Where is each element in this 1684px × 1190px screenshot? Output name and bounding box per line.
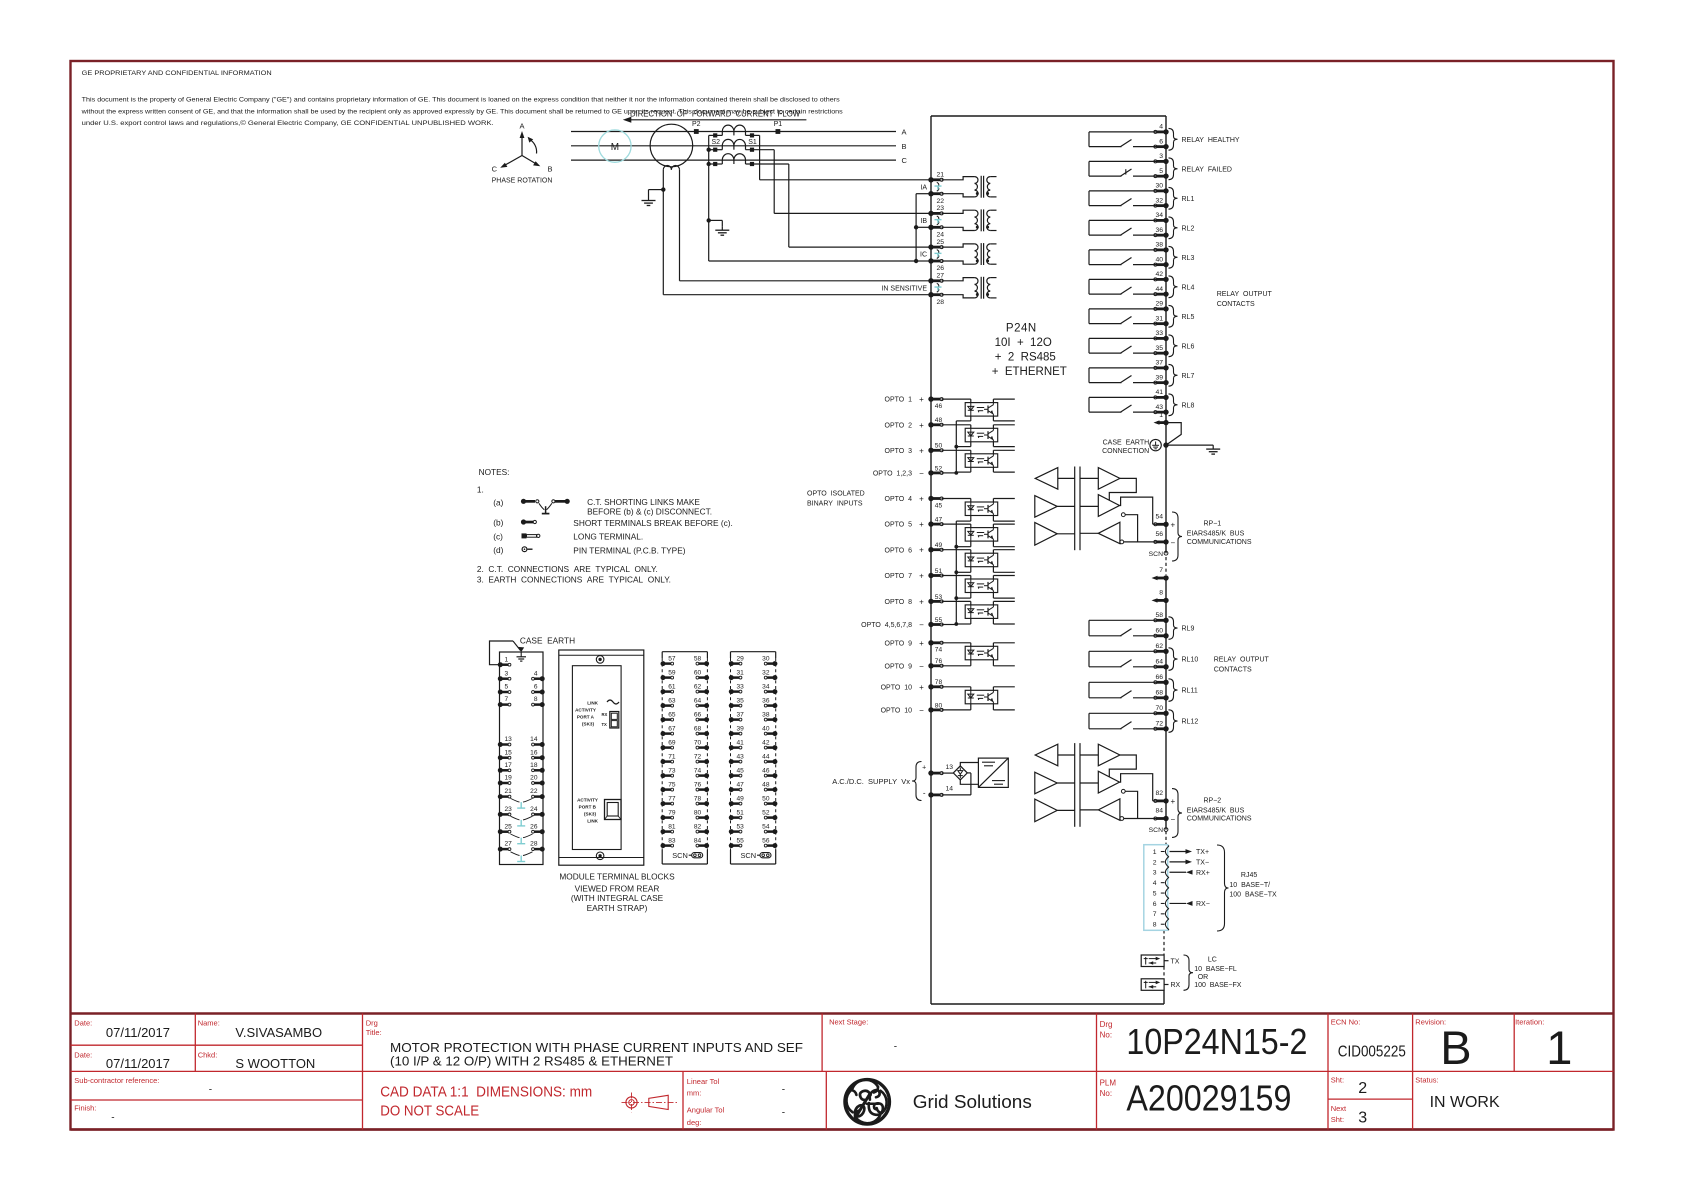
svg-text:36: 36 bbox=[762, 697, 770, 704]
svg-text:BEFORE (b) & (c) DISCONNECT.: BEFORE (b) & (c) DISCONNECT. bbox=[587, 506, 712, 516]
wire core CT lead right to terminal 27 bbox=[680, 170, 932, 281]
label RELAY FAILED bbox=[1182, 166, 1232, 173]
relay contact RL10 terminals 62/64 bbox=[1089, 651, 1166, 667]
svg-text:Sht:: Sht: bbox=[1331, 1076, 1344, 1085]
svg-text:32: 32 bbox=[1155, 197, 1163, 204]
svg-text:8: 8 bbox=[1159, 590, 1163, 597]
terminal 48 OPTO 2 + bbox=[885, 417, 944, 430]
title block drg no cell bbox=[1100, 1020, 1308, 1062]
terminal 43 bbox=[1154, 404, 1169, 415]
brace RL1 bbox=[1169, 187, 1178, 209]
terminal 5 bbox=[1154, 168, 1169, 179]
terminal 76 OPTO 9 - bbox=[885, 658, 944, 671]
svg-text:A: A bbox=[902, 128, 907, 137]
svg-text:80: 80 bbox=[935, 702, 943, 709]
relay contact RL11 terminals 66/68 bbox=[1089, 682, 1166, 698]
svg-text:-: - bbox=[782, 1084, 785, 1095]
terminal block 3 terminals bbox=[661, 655, 710, 848]
brace RL2 bbox=[1169, 217, 1178, 239]
svg-text:60: 60 bbox=[1155, 627, 1163, 634]
terminal 82 bbox=[1154, 790, 1176, 806]
marker P2 bbox=[692, 121, 701, 134]
svg-text:60: 60 bbox=[694, 669, 702, 676]
wire phase B S1 to terminal 23 bbox=[774, 150, 931, 214]
svg-text:28: 28 bbox=[530, 841, 538, 848]
svg-text:33: 33 bbox=[1155, 330, 1163, 337]
label RL6 bbox=[1182, 343, 1195, 350]
title block date cell bbox=[74, 1019, 170, 1072]
title block revision cell bbox=[1415, 1017, 1471, 1073]
terminal 26 bbox=[928, 258, 944, 272]
svg-text:V.SIVASAMBO: V.SIVASAMBO bbox=[235, 1025, 322, 1040]
svg-text:RL9: RL9 bbox=[1182, 626, 1195, 633]
svg-text:23: 23 bbox=[505, 806, 513, 813]
svg-text:100 BASE−FX: 100 BASE−FX bbox=[1194, 982, 1242, 989]
terminal 66 bbox=[1154, 674, 1169, 685]
svg-text:C: C bbox=[902, 156, 908, 165]
svg-text:24: 24 bbox=[937, 232, 945, 239]
RS485 interface RP-1 bbox=[1035, 467, 1166, 551]
notes heading bbox=[479, 467, 510, 477]
svg-text:20: 20 bbox=[530, 775, 538, 782]
svg-text:IB: IB bbox=[920, 218, 927, 225]
svg-text:31: 31 bbox=[1155, 315, 1163, 322]
module centre block outline bbox=[559, 650, 644, 865]
svg-text:+: + bbox=[919, 639, 924, 648]
svg-text:RL5: RL5 bbox=[1182, 314, 1195, 321]
opto group 1-3 channels bbox=[942, 399, 1015, 472]
svg-text:Finish:: Finish: bbox=[74, 1104, 96, 1113]
terminal 13 bbox=[928, 764, 953, 776]
CT phase A bbox=[709, 125, 760, 146]
svg-text:TX: TX bbox=[1171, 958, 1180, 965]
svg-text:OPTO 3: OPTO 3 bbox=[885, 448, 913, 455]
svg-text:+: + bbox=[1171, 520, 1176, 529]
svg-text:84: 84 bbox=[694, 837, 702, 844]
first angle projection symbol bbox=[622, 1093, 679, 1113]
terminal 50 OPTO 3 + bbox=[885, 443, 944, 456]
svg-text:BINARY INPUTS: BINARY INPUTS bbox=[807, 500, 863, 507]
brace RL4 bbox=[1169, 276, 1178, 298]
brace RL7 bbox=[1169, 364, 1178, 386]
disclaimer paragraph bbox=[81, 96, 843, 127]
input transformer IC bbox=[942, 243, 997, 265]
brace RL12 bbox=[1169, 710, 1178, 733]
svg-text:64: 64 bbox=[694, 697, 702, 704]
svg-text:23: 23 bbox=[937, 205, 945, 212]
terminal 24 bbox=[928, 225, 944, 239]
DC/DC converter bbox=[978, 758, 1008, 787]
label P24N 10I+12O+2RS485+ETHERNET bbox=[992, 323, 1067, 379]
svg-text:RL2: RL2 bbox=[1182, 225, 1195, 232]
svg-text:(SK3): (SK3) bbox=[582, 722, 594, 727]
svg-text:15: 15 bbox=[505, 749, 513, 756]
svg-text:CONTACTS: CONTACTS bbox=[1214, 667, 1252, 674]
svg-text:1.: 1. bbox=[477, 485, 484, 495]
GE proprietary header text bbox=[82, 70, 272, 77]
svg-text:OPTO 9: OPTO 9 bbox=[885, 640, 913, 647]
terminal 78 OPTO 10 + bbox=[881, 679, 943, 692]
svg-text:OPTO 1: OPTO 1 bbox=[885, 397, 913, 404]
svg-text:49: 49 bbox=[935, 542, 943, 549]
bridge rectifier bbox=[953, 766, 967, 780]
label RL8 bbox=[1182, 402, 1195, 409]
opto 9 channel bbox=[942, 643, 1015, 666]
svg-text:61: 61 bbox=[668, 683, 676, 690]
svg-text:07/11/2017: 07/11/2017 bbox=[106, 1056, 170, 1071]
brace RL11 bbox=[1169, 679, 1178, 702]
label RL10 bbox=[1182, 657, 1199, 664]
svg-text:CASE EARTH: CASE EARTH bbox=[1103, 440, 1150, 447]
LC TX port bbox=[1141, 955, 1180, 967]
terminal 21 bbox=[928, 172, 944, 183]
label IA bbox=[920, 184, 927, 191]
svg-text:mm:: mm: bbox=[687, 1088, 702, 1097]
svg-text:RX+: RX+ bbox=[1196, 870, 1210, 877]
svg-text:RP−2: RP−2 bbox=[1204, 797, 1222, 804]
svg-text:4: 4 bbox=[1153, 880, 1157, 887]
note (b) symbol and text bbox=[493, 518, 733, 528]
svg-text:81: 81 bbox=[668, 823, 676, 830]
terminal SCN RP-1 bbox=[1149, 551, 1168, 558]
svg-text:52: 52 bbox=[762, 809, 770, 816]
svg-text:Next Stage:: Next Stage: bbox=[829, 1018, 868, 1027]
svg-text:(d): (d) bbox=[493, 545, 503, 555]
svg-text:(10 I/P & 12 O/P) WITH 2 RS485: (10 I/P & 12 O/P) WITH 2 RS485 & ETHERNE… bbox=[390, 1053, 673, 1068]
svg-text:OPTO 6: OPTO 6 bbox=[885, 547, 913, 554]
svg-text:TX−: TX− bbox=[1196, 859, 1209, 866]
svg-text:49: 49 bbox=[737, 795, 745, 802]
svg-text:58: 58 bbox=[1155, 612, 1163, 619]
svg-text:40: 40 bbox=[762, 725, 770, 732]
phase line B bbox=[571, 142, 907, 151]
svg-text:27: 27 bbox=[937, 273, 945, 280]
terminal 4 bbox=[1154, 124, 1169, 135]
label RL5 bbox=[1182, 314, 1195, 321]
svg-text:33: 33 bbox=[737, 683, 745, 690]
svg-text:+: + bbox=[919, 546, 924, 555]
svg-text:A20029159: A20029159 bbox=[1126, 1078, 1291, 1119]
label RP-1 EIARS485/K BUS COMMUNICATIONS bbox=[1187, 521, 1252, 546]
svg-text:68: 68 bbox=[694, 725, 702, 732]
svg-text:74: 74 bbox=[935, 647, 943, 654]
svg-text:5: 5 bbox=[1153, 890, 1157, 897]
terminal 60 bbox=[1154, 627, 1169, 638]
svg-text:25: 25 bbox=[505, 823, 513, 830]
svg-text:RL3: RL3 bbox=[1182, 255, 1195, 262]
svg-text:36: 36 bbox=[1155, 227, 1163, 234]
relay contact RL12 terminals 70/72 bbox=[1089, 713, 1166, 729]
svg-text:78: 78 bbox=[935, 679, 943, 686]
label RL2 bbox=[1182, 225, 1195, 232]
svg-text:−: − bbox=[919, 706, 924, 715]
svg-text:21: 21 bbox=[505, 788, 513, 795]
svg-text:30: 30 bbox=[762, 655, 770, 662]
svg-text:44: 44 bbox=[1155, 286, 1163, 293]
svg-text:+: + bbox=[919, 446, 924, 455]
svg-text:(c): (c) bbox=[493, 531, 503, 541]
label case earth connection bbox=[1102, 440, 1149, 455]
svg-text:−: − bbox=[919, 621, 924, 630]
svg-text:82: 82 bbox=[694, 823, 702, 830]
svg-text:50: 50 bbox=[935, 443, 943, 450]
svg-text:39: 39 bbox=[737, 725, 745, 732]
svg-text:17: 17 bbox=[505, 762, 513, 769]
svg-text:SCN: SCN bbox=[1149, 827, 1163, 834]
svg-text:56: 56 bbox=[762, 837, 770, 844]
svg-text:38: 38 bbox=[762, 711, 770, 718]
svg-text:LINK: LINK bbox=[587, 819, 598, 824]
title block next stage cell bbox=[829, 1018, 897, 1053]
svg-text:1: 1 bbox=[1153, 849, 1157, 856]
terminal 68 bbox=[1154, 689, 1169, 700]
note (c) symbol and text bbox=[493, 531, 643, 541]
input transformer IB bbox=[942, 209, 997, 231]
svg-text:OR: OR bbox=[1198, 974, 1209, 981]
AC/DC supply terminals 13 14 bbox=[832, 762, 926, 801]
wires supply to converter bbox=[942, 763, 979, 795]
svg-text:42: 42 bbox=[1155, 271, 1163, 278]
terminal block 4 outline bbox=[731, 652, 776, 864]
terminal 14 bbox=[928, 786, 953, 798]
label RP-2 EIARS485/K BUS COMMUNICATIONS bbox=[1187, 797, 1252, 822]
svg-text:47: 47 bbox=[737, 781, 745, 788]
label RL9 bbox=[1182, 626, 1195, 633]
title block linear tol cell bbox=[687, 1077, 785, 1127]
svg-text:70: 70 bbox=[694, 739, 702, 746]
svg-text:EARTH STRAP): EARTH STRAP) bbox=[587, 903, 648, 913]
svg-text:RX−: RX− bbox=[1196, 901, 1210, 908]
note 2 bbox=[477, 564, 658, 574]
svg-text:Sht:: Sht: bbox=[1331, 1115, 1344, 1124]
LC RX port bbox=[1141, 979, 1180, 991]
svg-text:Sub-contractor reference:: Sub-contractor reference: bbox=[74, 1076, 159, 1085]
svg-text:SHORT TERMINALS BREAK BEFORE (: SHORT TERMINALS BREAK BEFORE (c). bbox=[573, 518, 733, 528]
title block name cell bbox=[198, 1019, 322, 1072]
title block cad data cell bbox=[380, 1083, 592, 1119]
svg-text:Name:: Name: bbox=[198, 1019, 220, 1028]
svg-text:Next: Next bbox=[1331, 1104, 1347, 1113]
svg-text:59: 59 bbox=[668, 669, 676, 676]
svg-text:COMMUNICATIONS: COMMUNICATIONS bbox=[1187, 539, 1252, 546]
svg-text:32: 32 bbox=[762, 669, 770, 676]
svg-text:OPTO 1,2,3: OPTO 1,2,3 bbox=[873, 471, 912, 478]
terminal block 4 SCN bbox=[741, 851, 772, 860]
svg-text:+: + bbox=[1171, 797, 1176, 806]
svg-text:under U.S. export control laws: under U.S. export control laws and regul… bbox=[82, 119, 494, 127]
svg-text:GE PROPRIETARY AND CONFIDENTIA: GE PROPRIETARY AND CONFIDENTIAL INFORMAT… bbox=[82, 70, 272, 77]
GE logo bbox=[845, 1080, 890, 1125]
svg-text:30: 30 bbox=[1155, 183, 1163, 190]
terminal 33 bbox=[1154, 330, 1169, 341]
svg-text:57: 57 bbox=[668, 655, 676, 662]
svg-text:13: 13 bbox=[505, 736, 513, 743]
brace RP-2 bbox=[1172, 789, 1182, 838]
svg-text:50: 50 bbox=[762, 795, 770, 802]
relay contact RL5 terminals 29/31 bbox=[1089, 309, 1166, 324]
label RL3 bbox=[1182, 255, 1195, 262]
RS485 interface RP-2 bbox=[1035, 743, 1166, 827]
label RL11 bbox=[1182, 688, 1198, 695]
terminal 8 bbox=[1152, 590, 1169, 604]
svg-text:(SK3): (SK3) bbox=[584, 812, 596, 817]
svg-text:22: 22 bbox=[530, 788, 538, 795]
svg-text:+: + bbox=[919, 421, 924, 430]
phase line C bbox=[571, 156, 908, 165]
terminal 34 bbox=[1154, 212, 1169, 223]
terminal 27 bbox=[928, 273, 944, 284]
svg-text:RL8: RL8 bbox=[1182, 402, 1195, 409]
terminal 44 bbox=[1154, 286, 1169, 297]
svg-text:OPTO 8: OPTO 8 bbox=[885, 599, 913, 606]
svg-text:OPTO 7: OPTO 7 bbox=[885, 573, 913, 580]
svg-text:IN SENSITIVE: IN SENSITIVE bbox=[881, 285, 927, 292]
CT shorting link 21/22 bbox=[935, 182, 942, 191]
svg-text:OPTO 5: OPTO 5 bbox=[885, 522, 913, 529]
svg-text:ACTIVITY: ACTIVITY bbox=[577, 798, 598, 803]
svg-text:Title:: Title: bbox=[366, 1028, 382, 1037]
case earth label and strap bbox=[490, 635, 576, 664]
phase line A bbox=[571, 128, 907, 137]
svg-text:52: 52 bbox=[935, 465, 943, 472]
svg-text:43: 43 bbox=[737, 753, 745, 760]
svg-text:29: 29 bbox=[1155, 301, 1163, 308]
svg-text:(a): (a) bbox=[493, 497, 503, 507]
svg-text:RELAY HEALTHY: RELAY HEALTHY bbox=[1182, 137, 1240, 144]
svg-text:+ ETHERNET: + ETHERNET bbox=[992, 366, 1067, 378]
svg-text:-: - bbox=[209, 1085, 212, 1096]
svg-text:RL7: RL7 bbox=[1182, 373, 1195, 380]
svg-text:25: 25 bbox=[937, 239, 945, 246]
svg-text:75: 75 bbox=[668, 781, 676, 788]
marker P1 bbox=[774, 121, 783, 134]
title block sub-contractor cell bbox=[74, 1076, 212, 1124]
terminal 40 bbox=[1154, 256, 1169, 267]
svg-text:69: 69 bbox=[668, 739, 676, 746]
svg-text:+: + bbox=[919, 597, 924, 606]
svg-text:46: 46 bbox=[935, 403, 943, 410]
svg-text:27: 27 bbox=[505, 841, 513, 848]
svg-text:83: 83 bbox=[668, 837, 676, 844]
svg-text:72: 72 bbox=[694, 753, 702, 760]
svg-text:63: 63 bbox=[668, 697, 676, 704]
module screw top bbox=[596, 656, 604, 664]
svg-text:7: 7 bbox=[1159, 567, 1163, 574]
svg-text:RL1: RL1 bbox=[1182, 196, 1195, 203]
relay contact RELAY HEALTHY terminals 4/6 bbox=[1089, 132, 1166, 147]
earth connection at core CT bbox=[642, 187, 666, 205]
svg-text:77: 77 bbox=[668, 795, 676, 802]
svg-text:RL10: RL10 bbox=[1182, 657, 1199, 664]
note 1 bbox=[477, 485, 484, 495]
terminal 28 bbox=[928, 292, 944, 306]
brace LC bbox=[1184, 955, 1194, 990]
svg-text:PORT A: PORT A bbox=[577, 715, 595, 720]
terminal block 3 outline bbox=[662, 652, 707, 864]
svg-text:RELAY OUTPUT: RELAY OUTPUT bbox=[1217, 291, 1273, 298]
brace RL10 bbox=[1169, 648, 1178, 671]
svg-text:P24N: P24N bbox=[1006, 323, 1037, 335]
svg-text:26: 26 bbox=[530, 823, 538, 830]
label relay output contacts lower bbox=[1214, 657, 1270, 674]
svg-text:MODULE TERMINAL BLOCKS: MODULE TERMINAL BLOCKS bbox=[559, 871, 675, 881]
svg-text:OPTO ISOLATED: OPTO ISOLATED bbox=[807, 490, 865, 497]
svg-text:54: 54 bbox=[1155, 513, 1163, 520]
terminal 41 bbox=[1154, 389, 1169, 400]
svg-text:+: + bbox=[919, 572, 924, 581]
svg-text:P2: P2 bbox=[692, 121, 701, 128]
svg-text:-: - bbox=[111, 1113, 114, 1124]
svg-text:3: 3 bbox=[505, 670, 509, 677]
svg-text:34: 34 bbox=[762, 683, 770, 690]
note 3 bbox=[477, 575, 671, 585]
svg-text:56: 56 bbox=[1155, 531, 1163, 538]
svg-text:16: 16 bbox=[530, 749, 538, 756]
svg-text:1: 1 bbox=[1546, 1021, 1572, 1074]
svg-text:48: 48 bbox=[935, 417, 943, 424]
terminal block 1 right terminals bbox=[530, 670, 545, 851]
svg-text:Status:: Status: bbox=[1415, 1076, 1438, 1085]
svg-text:P1: P1 bbox=[774, 121, 783, 128]
svg-text:RL11: RL11 bbox=[1182, 688, 1198, 695]
svg-text:4: 4 bbox=[534, 670, 538, 677]
svg-text:B: B bbox=[548, 165, 553, 174]
svg-text:Drg: Drg bbox=[1100, 1020, 1113, 1029]
svg-text:26: 26 bbox=[937, 265, 945, 272]
svg-text:Linear Tol: Linear Tol bbox=[687, 1077, 720, 1086]
svg-text:VIEWED FROM REAR: VIEWED FROM REAR bbox=[575, 884, 660, 894]
svg-text:41: 41 bbox=[1155, 389, 1163, 396]
svg-text:51: 51 bbox=[737, 809, 745, 816]
brace RELAY FAILED bbox=[1169, 158, 1178, 180]
svg-text:RX: RX bbox=[1171, 982, 1181, 989]
svg-text:CONNECTION: CONNECTION bbox=[1102, 448, 1149, 455]
svg-text:Angular Tol: Angular Tol bbox=[687, 1105, 725, 1114]
svg-text:13: 13 bbox=[946, 764, 954, 771]
terminal 1 bbox=[1154, 412, 1169, 425]
svg-text:47: 47 bbox=[935, 517, 943, 524]
brace RJ45 bbox=[1217, 845, 1229, 931]
svg-text:35: 35 bbox=[1155, 345, 1163, 352]
svg-text:B: B bbox=[902, 142, 907, 151]
svg-text:+: + bbox=[922, 765, 926, 772]
note (a) symbol and text bbox=[493, 497, 712, 516]
svg-text:76: 76 bbox=[694, 781, 702, 788]
svg-text:78: 78 bbox=[694, 795, 702, 802]
wire phase A S1 to terminal 21 bbox=[760, 135, 931, 179]
svg-text:53: 53 bbox=[737, 823, 745, 830]
svg-text:2: 2 bbox=[1358, 1080, 1367, 1097]
svg-text:COMMUNICATIONS: COMMUNICATIONS bbox=[1187, 816, 1252, 823]
svg-text:−: − bbox=[919, 469, 924, 478]
relay contact RL3 terminals 38/40 bbox=[1089, 250, 1166, 265]
terminal 36 bbox=[1154, 227, 1169, 238]
svg-text:-: - bbox=[782, 1107, 785, 1118]
svg-text:14: 14 bbox=[946, 786, 954, 793]
svg-text:07/11/2017: 07/11/2017 bbox=[106, 1025, 170, 1040]
CT shorting link 25/26 bbox=[935, 250, 942, 259]
svg-text:3: 3 bbox=[1159, 153, 1163, 160]
terminal 30 bbox=[1154, 183, 1169, 194]
svg-text:RX: RX bbox=[602, 712, 608, 717]
svg-text:−: − bbox=[919, 662, 924, 671]
svg-text:84: 84 bbox=[1155, 808, 1163, 815]
svg-text:55: 55 bbox=[935, 617, 943, 624]
svg-text:+: + bbox=[919, 520, 924, 529]
brace RL5 bbox=[1169, 305, 1178, 327]
svg-text:C: C bbox=[492, 165, 498, 174]
terminal 64 bbox=[1154, 658, 1169, 669]
